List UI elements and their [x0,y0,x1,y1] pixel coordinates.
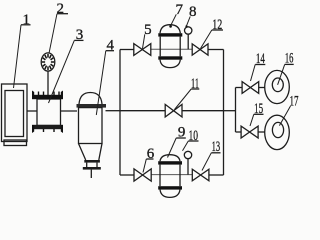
underline for label 4 [106,50,114,52]
leader line for label 10 [183,141,189,151]
wire: vessel4 drain [90,170,92,178]
svg-text:10: 10 [188,128,198,144]
wire: valve14 to pump16 [259,87,265,89]
leader line for label 9 [168,138,177,158]
leader line for label 7 [170,14,176,26]
svg-text:5: 5 [144,22,152,38]
underline for label 11 [191,88,199,90]
underline for label 3 [74,39,83,41]
wire: gauge10 stem [187,159,189,175]
wire: gauge8 stem [187,34,189,49]
svg-text:16: 16 [285,51,294,67]
separator V4 (component 4, domed vessel with cone bottom) [77,93,107,179]
underline for label 6 [146,158,153,160]
wire: middle branch (main line to valve11) [120,110,165,112]
svg-text:4: 4 [107,37,115,53]
tank T1 (component 1, box with liner) [2,84,28,146]
pump P16 (component 16, double circle) [265,70,290,103]
gauge G2 (component 2, dial meter) [41,53,55,95]
underline for label 16 [285,63,294,65]
leader line for label 8 [186,17,190,27]
wire: vessel3 to vessel4 [61,110,78,112]
wire: stub to pump manifold [224,110,236,112]
wire: box1 to vessel3 [27,110,37,112]
svg-text:13: 13 [212,139,221,155]
wire: gauge2 stem [47,71,49,95]
wire: vessel4 to left loop vertical [106,110,121,112]
wire: left loop vertical [119,50,121,176]
leader line for label 3 [49,40,75,103]
valve 13 [192,169,209,181]
leader line for label 14 [251,65,256,82]
svg-text:17: 17 [290,94,299,110]
wire: right loop vertical [223,50,225,176]
wire: pump manifold vertical [235,88,237,133]
leader line for label 15 [250,114,254,126]
svg-text:7: 7 [175,2,183,18]
leader line for label 11 [175,89,192,110]
wire: valve5 to vessel7 (passes through vessel) [151,48,192,50]
underline for label 12 [212,29,223,31]
svg-text:9: 9 [178,125,186,141]
wire: bottom branch left segment [120,174,134,176]
svg-text:6: 6 [147,146,155,162]
svg-text:15: 15 [254,101,263,117]
valve 14 [242,82,259,94]
pump P17 (component 17, double circle) [265,115,290,149]
wire: valve15 to pump17 [258,131,265,133]
gauge G8 (component 8) [185,27,192,50]
leader line for label 16 [278,64,285,84]
wire: manifold to valve14 [236,87,243,89]
wire: valve6 to vessel9 (passes through vessel) [151,174,192,176]
tank T9 (component 9, horizontal banded vessel) [158,155,182,198]
underline for label 9 [176,137,186,139]
leader line for label 6 [143,159,146,173]
svg-text:11: 11 [191,76,199,92]
leader line for label 12 [201,30,212,49]
valve 12 [192,44,208,55]
leader line for label 5 [143,34,145,48]
valve 6 [134,169,151,181]
svg-text:2: 2 [57,1,65,17]
underline for label 14 [255,64,265,66]
wire: top branch left segment [120,49,134,51]
underline for label 2 [57,13,68,15]
leader line for label 17 [279,106,290,126]
leader line for label 2 [49,14,57,54]
valve 5 [134,44,151,56]
valve 15 [241,126,258,138]
leader line for label 4 [96,51,106,115]
svg-text:3: 3 [76,27,84,43]
leader line for label 1 [14,25,22,88]
svg-text:1: 1 [23,12,31,28]
wire: valve12 to right loop corner [208,49,224,51]
underline for label 13 [211,152,220,154]
filter F3 (component 3, flanged vessel) [32,91,63,134]
underline for label 1 [21,24,31,26]
underline for label 10 [188,140,198,142]
valve 11 [165,104,182,117]
wire: manifold to valve15 [236,131,242,133]
svg-text:8: 8 [189,4,197,20]
gauge G10 (component 10) [184,151,191,174]
underline for label 15 [254,113,264,115]
leader line for label 13 [202,153,211,171]
svg-text:12: 12 [212,17,222,33]
wire: valve13 to right loop corner [209,174,224,176]
wire: valve11 to right loop [182,110,224,112]
tank T7 (component 7, horizontal banded vessel) [158,25,182,68]
svg-text:14: 14 [256,51,265,67]
